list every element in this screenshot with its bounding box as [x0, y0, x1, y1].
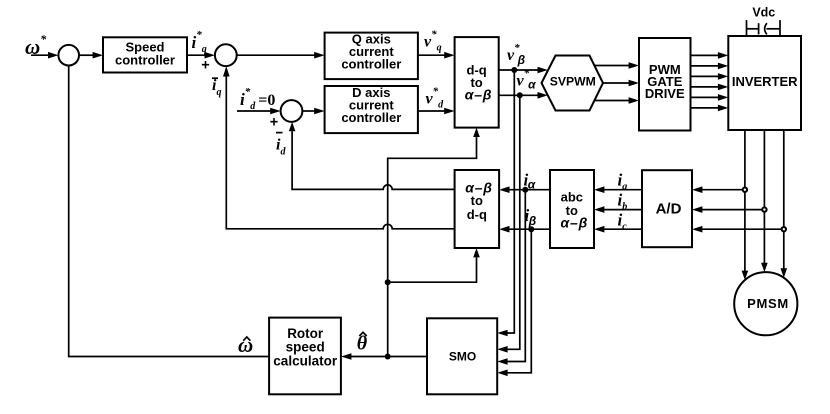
wire v-alpha-star down to SMO: [497, 95, 520, 352]
Vdc dc-link capacitor: [747, 20, 781, 36]
svg-text:calculator: calculator: [273, 353, 338, 368]
wire SVPWM out 1: [594, 62, 639, 69]
wire theta-hat riser and branch to dq-ab block: [388, 128, 480, 357]
block SVPWM hexagon: [542, 56, 604, 111]
svg-text:α–β: α–β: [561, 215, 589, 231]
wire i-beta down to SMO: [497, 229, 531, 376]
svg-text:α–β: α–β: [465, 87, 493, 103]
wire id-star input: [237, 108, 281, 115]
block abc to alpha-beta: [550, 170, 594, 248]
svg-text:SVPWM: SVPWM: [550, 74, 596, 88]
wire i-alpha from abc block to ab-dq block: [499, 186, 550, 193]
motor PMSM: [734, 272, 797, 335]
wire ia from A/D to abc block: [594, 186, 642, 193]
wire ic from A/D to abc block: [594, 226, 642, 233]
svg-text:Rotor: Rotor: [287, 326, 324, 341]
wire SVPWM out 3: [594, 97, 639, 104]
wire phase A tap to A/D: [692, 186, 745, 193]
svg-text:d-q: d-q: [467, 207, 487, 222]
label Speed controller: [115, 40, 175, 68]
wire phase C tap to A/D: [692, 226, 784, 233]
tap node phase B: [762, 207, 766, 211]
svg-text:DRIVE: DRIVE: [645, 86, 685, 101]
wire v-beta-star down to SMO: [497, 70, 514, 336]
junction dot i-beta: [528, 226, 534, 232]
wire S3 to D axis controller: [302, 108, 324, 115]
block A/D converter: [642, 170, 692, 247]
wire omega-star input: [31, 52, 58, 59]
svg-text:controller: controller: [341, 57, 401, 72]
summing node S2: [215, 44, 237, 66]
wire speed controller to summing node S2: [187, 52, 215, 59]
block speed controller: [103, 37, 187, 72]
wire gate signal 5: [691, 94, 729, 101]
svg-text:ω: ω: [238, 333, 253, 357]
tap node phase A: [743, 188, 747, 192]
wire omega-hat feedback to S1: [69, 66, 269, 357]
wire inverter phase B down to PMSM: [761, 130, 768, 272]
wire i-beta from abc block to ab-dq block: [499, 226, 550, 233]
wire gate signal 2: [691, 63, 729, 70]
junction dot v-beta: [511, 67, 517, 73]
wire Q axis controller to dq-ab block: [418, 52, 455, 59]
block D axis current controller: [325, 86, 418, 133]
svg-text:A/D: A/D: [656, 201, 682, 218]
summing node S1: [58, 45, 79, 66]
label PWM GATE DRIVE: [645, 62, 685, 101]
label alpha-beta to dq: [465, 179, 493, 222]
wire D axis controller to dq-ab block: [418, 108, 455, 115]
tap node phase C: [782, 227, 786, 231]
block Q axis current controller: [325, 33, 418, 80]
label Q axis current controller: [341, 32, 401, 72]
wire v-alpha-star to SVPWM: [499, 92, 548, 99]
wire v-beta-star to SVPWM: [499, 67, 548, 74]
summing node S3: [281, 100, 303, 122]
block inverter: [728, 36, 801, 130]
label theta-hat: [357, 332, 368, 354]
wire gate signal 3: [691, 73, 729, 80]
svg-text:+: +: [270, 114, 278, 130]
wire phase B tap to A/D: [692, 206, 764, 213]
wire i-alpha down to SMO: [497, 190, 525, 365]
label abc to alpha-beta: [561, 189, 589, 230]
junction dot i-alpha: [522, 187, 528, 193]
label omega-hat: [238, 333, 253, 357]
junction dot theta branch: [385, 279, 391, 285]
wire theta-hat branch to ab-dq block: [388, 248, 480, 282]
block rotor speed calculator: [269, 318, 341, 395]
label Rotor speed calculator: [273, 326, 338, 369]
label D axis current controller: [341, 85, 401, 125]
wire ib from A/D to abc block: [594, 206, 642, 213]
wire inverter phase A down to PMSM: [742, 130, 749, 280]
wire gate signal 4: [691, 84, 729, 91]
block dq to alpha-beta: [455, 37, 499, 128]
label dq to alpha-beta: [465, 62, 493, 102]
wire S2 to Q axis controller: [237, 52, 325, 59]
label id-bar feedback: [276, 133, 286, 158]
svg-text:SMO: SMO: [449, 349, 476, 363]
junction dot v-alpha: [517, 92, 523, 98]
svg-text:controller: controller: [341, 110, 401, 125]
wire SMO output to rotor speed calculator: [341, 353, 427, 360]
wire iq feedback from ab-dq block to S2 (with hop): [223, 66, 455, 229]
svg-text:INVERTER: INVERTER: [732, 74, 798, 89]
wire gate signal 6: [691, 105, 729, 112]
wire inverter phase C down to PMSM: [781, 130, 788, 278]
block PWM gate drive: [639, 38, 691, 131]
svg-text:PMSM: PMSM: [747, 296, 789, 311]
wire gate signal 1: [691, 52, 729, 59]
wire SVPWM out 2: [603, 80, 639, 87]
block SMO: [427, 318, 497, 394]
svg-text:controller: controller: [115, 52, 175, 67]
label iq-bar feedback: [212, 77, 221, 98]
svg-text:Vdc: Vdc: [752, 6, 775, 20]
wire id feedback from ab-dq block to S3 (with hop): [289, 122, 455, 189]
block alpha-beta to dq: [455, 170, 500, 248]
junction dot theta-hat on SMO output: [385, 354, 391, 360]
svg-text:+: +: [201, 58, 209, 74]
wire S1 to speed controller: [79, 52, 103, 59]
